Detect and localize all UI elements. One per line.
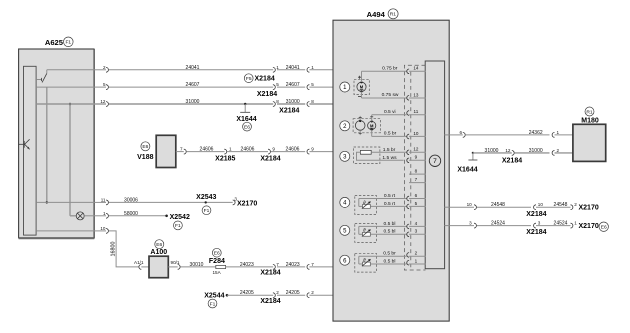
svg-text:24606: 24606 [200, 147, 214, 153]
svg-text:24205: 24205 [286, 290, 300, 296]
svg-text:X2543: X2543 [196, 194, 216, 201]
svg-text:E6: E6 [244, 124, 250, 130]
svg-text:24041: 24041 [186, 65, 200, 71]
svg-text:E6: E6 [142, 144, 148, 150]
svg-text:A100: A100 [150, 249, 167, 256]
svg-text:0.5 bl: 0.5 bl [384, 258, 396, 264]
svg-text:10: 10 [538, 202, 544, 207]
svg-text:2: 2 [103, 65, 106, 70]
svg-text:24606: 24606 [241, 147, 255, 153]
svg-text:E6: E6 [601, 225, 607, 231]
svg-text:24606: 24606 [286, 147, 300, 153]
svg-text:F284: F284 [209, 258, 225, 265]
svg-text:M: M [360, 85, 364, 90]
svg-text:24548: 24548 [491, 202, 505, 208]
svg-text:5: 5 [311, 82, 314, 87]
svg-text:1.5 ws: 1.5 ws [382, 155, 397, 161]
svg-text:31000: 31000 [485, 148, 499, 154]
svg-text:14: 14 [413, 66, 419, 71]
svg-text:0.5 bl: 0.5 bl [384, 229, 396, 235]
svg-text:9: 9 [311, 147, 314, 152]
svg-text:X2184: X2184 [260, 270, 280, 277]
svg-text:7: 7 [433, 158, 437, 165]
svg-text:31000: 31000 [286, 99, 300, 105]
svg-text:7: 7 [415, 177, 418, 182]
svg-text:F1: F1 [175, 223, 181, 229]
svg-text:F1: F1 [65, 40, 71, 46]
svg-text:2: 2 [557, 148, 560, 153]
svg-text:X2170: X2170 [579, 205, 599, 212]
svg-text:24548: 24548 [554, 202, 568, 208]
svg-text:2: 2 [311, 290, 314, 295]
svg-text:M: M [370, 123, 374, 128]
svg-text:24607: 24607 [286, 82, 300, 88]
svg-text:24524: 24524 [491, 221, 505, 227]
svg-text:5: 5 [276, 82, 279, 87]
svg-text:X2184: X2184 [502, 158, 522, 165]
svg-text:2: 2 [276, 290, 279, 295]
svg-text:2: 2 [574, 202, 577, 207]
svg-text:31000: 31000 [186, 99, 200, 105]
svg-text:X1644: X1644 [457, 166, 477, 173]
svg-text:X2184: X2184 [257, 91, 277, 98]
svg-text:12: 12 [505, 148, 511, 153]
svg-text:1: 1 [276, 65, 279, 70]
svg-text:4: 4 [415, 221, 418, 226]
svg-text:12: 12 [413, 147, 419, 152]
svg-text:15A: 15A [213, 270, 222, 275]
svg-text:6: 6 [459, 130, 462, 135]
svg-text:X2184: X2184 [255, 76, 275, 83]
svg-text:X1644: X1644 [236, 116, 256, 123]
svg-text:X2184: X2184 [526, 229, 546, 236]
svg-text:X2184: X2184 [260, 298, 280, 305]
svg-text:10: 10 [413, 131, 419, 136]
svg-text:0.5 rt: 0.5 rt [384, 201, 396, 207]
svg-text:X2542: X2542 [170, 214, 190, 221]
svg-text:2: 2 [415, 251, 418, 256]
svg-text:X2544: X2544 [204, 292, 224, 299]
svg-text:9: 9 [272, 147, 275, 152]
svg-text:X2170: X2170 [579, 223, 599, 230]
svg-text:7: 7 [311, 262, 314, 267]
svg-text:E6: E6 [156, 242, 162, 248]
svg-text:24023: 24023 [286, 262, 300, 268]
svg-text:24607: 24607 [186, 82, 200, 88]
svg-text:16800: 16800 [111, 242, 117, 257]
svg-text:24205: 24205 [240, 290, 254, 296]
svg-text:1: 1 [103, 211, 106, 216]
svg-text:A494: A494 [367, 10, 386, 19]
svg-text:5: 5 [103, 82, 106, 87]
svg-text:11: 11 [101, 197, 106, 202]
svg-text:1: 1 [415, 258, 418, 263]
svg-text:X2184: X2184 [279, 107, 299, 114]
svg-text:M180: M180 [581, 117, 599, 124]
svg-text:0.5 br: 0.5 br [383, 251, 396, 257]
svg-text:A625: A625 [45, 38, 64, 47]
svg-text:10: 10 [100, 226, 106, 231]
svg-text:1: 1 [557, 130, 560, 135]
svg-text:24362: 24362 [529, 130, 543, 136]
svg-text:X2170: X2170 [237, 201, 257, 208]
svg-text:V188: V188 [137, 154, 153, 161]
svg-text:1: 1 [574, 221, 577, 226]
svg-text:13: 13 [413, 92, 419, 97]
svg-text:0.5 rt: 0.5 rt [384, 193, 396, 199]
svg-text:1: 1 [311, 65, 314, 70]
svg-text:R1: R1 [390, 12, 397, 18]
svg-text:58000: 58000 [124, 211, 138, 217]
svg-text:30010: 30010 [190, 262, 204, 268]
svg-text:0.75 sw: 0.75 sw [382, 92, 399, 98]
svg-text:8: 8 [276, 99, 279, 104]
svg-text:6: 6 [415, 193, 418, 198]
svg-text:3: 3 [469, 221, 472, 226]
svg-text:3: 3 [415, 229, 418, 234]
svg-text:31000: 31000 [529, 148, 543, 154]
svg-text:X2184: X2184 [260, 156, 280, 163]
svg-text:0.5 vi: 0.5 vi [384, 109, 396, 115]
svg-text:24524: 24524 [554, 221, 568, 227]
svg-text:A1/1: A1/1 [134, 260, 144, 265]
svg-text:11: 11 [414, 109, 419, 114]
svg-text:1: 1 [229, 147, 232, 152]
svg-text:0.5 br: 0.5 br [384, 130, 397, 136]
svg-text:9: 9 [415, 155, 418, 160]
svg-text:0.5 bl: 0.5 bl [384, 221, 396, 227]
svg-text:8: 8 [311, 99, 314, 104]
svg-text:X2185: X2185 [215, 156, 235, 163]
svg-text:12: 12 [100, 99, 106, 104]
svg-text:24023: 24023 [240, 262, 254, 268]
svg-text:F1: F1 [210, 301, 216, 307]
svg-text:X2184: X2184 [526, 211, 546, 218]
svg-text:1.5 br: 1.5 br [383, 147, 396, 153]
svg-text:0.75 br: 0.75 br [382, 65, 398, 71]
svg-text:F1: F1 [204, 208, 210, 214]
svg-text:7: 7 [276, 262, 279, 267]
svg-text:8: 8 [415, 169, 418, 174]
svg-text:10: 10 [467, 202, 473, 207]
svg-text:F5: F5 [246, 76, 252, 82]
svg-text:R1: R1 [586, 109, 593, 115]
svg-text:E6: E6 [214, 251, 220, 257]
svg-text:24041: 24041 [286, 65, 300, 71]
svg-text:5: 5 [415, 201, 418, 206]
svg-text:3: 3 [538, 221, 541, 226]
svg-text:7: 7 [180, 147, 183, 152]
svg-text:30006: 30006 [124, 197, 138, 203]
